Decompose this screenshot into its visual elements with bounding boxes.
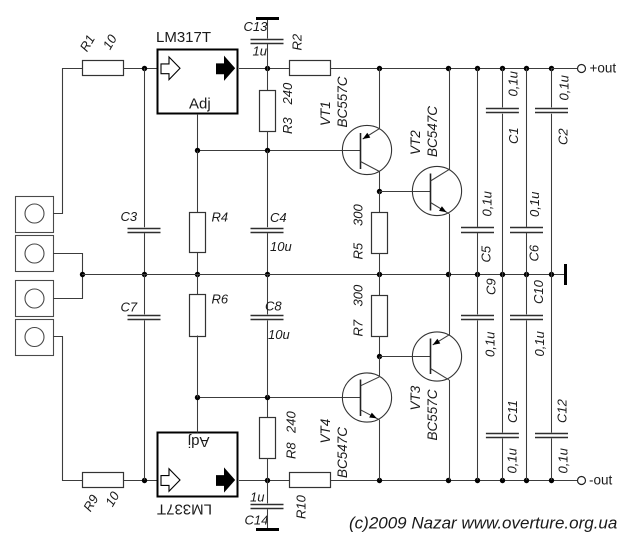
node bottom rail junction bbox=[265, 478, 270, 483]
svg-text:LM337T: LM337T bbox=[157, 501, 212, 518]
transistor VT2 body bbox=[412, 166, 461, 215]
wire mid rail to C12 bbox=[551, 274, 553, 433]
svg-text:C5: C5 bbox=[479, 245, 494, 262]
wire mid rail to C7 bbox=[144, 274, 146, 314]
wire U2 output to R10 bbox=[239, 480, 290, 482]
svg-text:BC547C: BC547C bbox=[425, 106, 440, 157]
capacitor C13 bbox=[251, 39, 284, 41]
wire R8 to bottom rail bbox=[267, 458, 269, 480]
node adj line at R3/C4 bbox=[265, 148, 270, 153]
svg-text:1u: 1u bbox=[253, 44, 267, 59]
wire bottom output rail bbox=[331, 480, 578, 482]
node bottom-left junction bbox=[142, 478, 147, 483]
ground bar below C14 bbox=[256, 528, 279, 531]
resistor R7 bbox=[372, 296, 388, 337]
VT3 base bar bbox=[430, 339, 432, 375]
VT4 base bar bbox=[360, 380, 362, 417]
wire bottom rail to C14 bbox=[267, 480, 269, 503]
connector X4 bbox=[16, 320, 54, 356]
wire adj line to R4 bbox=[197, 151, 199, 213]
node top rail junction bbox=[475, 66, 480, 71]
wire mid rail to C11 bbox=[502, 274, 504, 433]
node top rail junction bbox=[446, 66, 451, 71]
transistor VT1 body bbox=[342, 125, 391, 174]
svg-text:C12: C12 bbox=[555, 398, 570, 423]
node C3 mid rail bbox=[142, 272, 147, 277]
node VT4 collector junction bbox=[377, 354, 382, 359]
svg-text:R5: R5 bbox=[351, 242, 366, 259]
node bottom rail junction bbox=[377, 478, 382, 483]
wire top rail to C1 bbox=[502, 68, 504, 107]
wire top rail to C5 bbox=[477, 68, 479, 227]
node mid rail junction bbox=[475, 272, 480, 277]
node top rail junction bbox=[265, 66, 270, 71]
svg-text:VT1: VT1 bbox=[318, 101, 333, 126]
terminal -out bbox=[578, 477, 586, 485]
svg-text:C9: C9 bbox=[484, 278, 499, 295]
svg-text:C14: C14 bbox=[245, 513, 269, 528]
wire U1 Adj pin down bbox=[197, 114, 199, 151]
svg-text:10: 10 bbox=[100, 31, 121, 52]
svg-text:R8: R8 bbox=[284, 442, 299, 459]
wire mid rail to VT3 emitter bbox=[449, 274, 451, 335]
node top rail junction bbox=[500, 66, 505, 71]
connector X1 bbox=[16, 197, 54, 233]
capacitor C1 bbox=[486, 108, 519, 110]
connector X3 bbox=[16, 281, 54, 317]
wire from X3 to mid node bbox=[53, 275, 83, 299]
svg-text:C4: C4 bbox=[270, 210, 287, 225]
U2 input arrow (open) bbox=[161, 469, 180, 492]
wire R9 to LM337 input bbox=[124, 480, 158, 482]
wire mid rail to C9 bbox=[477, 274, 479, 314]
svg-text:0,1u: 0,1u bbox=[483, 332, 498, 357]
svg-text:240: 240 bbox=[280, 82, 295, 105]
resistor R9 bbox=[83, 473, 124, 488]
svg-text:0,1u: 0,1u bbox=[556, 448, 571, 473]
resistor R3 bbox=[260, 91, 276, 132]
VT2 base bar bbox=[430, 174, 432, 211]
capacitor C8 bbox=[251, 315, 284, 317]
svg-text:C8: C8 bbox=[265, 299, 282, 314]
capacitor C9 bbox=[461, 315, 494, 317]
node adj2 line at R8/C8 bbox=[265, 395, 270, 400]
svg-text:R6: R6 bbox=[212, 292, 229, 307]
svg-text:VT3: VT3 bbox=[408, 385, 423, 410]
capacitor C11 bbox=[486, 433, 519, 435]
svg-text:10u: 10u bbox=[268, 327, 290, 342]
capacitor C5 bbox=[461, 227, 494, 229]
wire C1 to mid rail bbox=[502, 114, 504, 274]
node bottom rail junction bbox=[524, 478, 529, 483]
wire from X2 to mid node bbox=[53, 254, 83, 275]
svg-text:C13: C13 bbox=[244, 19, 269, 34]
wire top rail to C6 bbox=[526, 68, 528, 227]
transistor VT3 body bbox=[412, 332, 461, 381]
svg-text:C3: C3 bbox=[121, 209, 138, 224]
svg-text:R9: R9 bbox=[80, 492, 101, 514]
node mid rail junction bbox=[500, 272, 505, 277]
svg-text:R10: R10 bbox=[294, 494, 309, 519]
wire from X1 to +input rail bbox=[53, 69, 83, 214]
U1 input arrow (open) bbox=[161, 57, 180, 80]
wire mid rail to R7 bbox=[379, 274, 381, 295]
capacitor C7 bbox=[128, 315, 161, 317]
svg-text:C1: C1 bbox=[506, 127, 521, 144]
wire VT2 collector to top rail bbox=[449, 68, 451, 170]
wire VT1 collector down bbox=[379, 172, 381, 192]
svg-text:300: 300 bbox=[351, 204, 366, 226]
node bottom rail junction bbox=[500, 478, 505, 483]
resistor R4 bbox=[190, 213, 206, 253]
svg-text:BC547C: BC547C bbox=[335, 427, 350, 478]
node mid rail junction bbox=[524, 272, 529, 277]
wire R3 to adj line bbox=[267, 131, 269, 151]
wire bar to C13 bbox=[267, 20, 269, 39]
node mid input junction bbox=[80, 272, 85, 277]
VT1 emitter bbox=[363, 129, 380, 139]
wire mid rail to C10 bbox=[526, 274, 528, 314]
wire adj line to VT1 base bbox=[198, 150, 361, 152]
resistor R2 bbox=[290, 61, 331, 76]
node adj2 line left bbox=[195, 395, 200, 400]
U2 output arrow (solid) bbox=[217, 469, 235, 492]
svg-text:1u: 1u bbox=[250, 490, 264, 505]
wire top output rail bbox=[331, 68, 578, 70]
node top rail junction bbox=[524, 66, 529, 71]
svg-text:10: 10 bbox=[102, 488, 123, 509]
wire +rail down to C3 bbox=[144, 68, 146, 227]
node mid rail junction bbox=[377, 272, 382, 277]
VT4 emitter bbox=[361, 410, 380, 420]
VT2 collector bbox=[431, 170, 450, 181]
svg-text:BC557C: BC557C bbox=[425, 389, 440, 440]
wire C7 to bottom rail bbox=[144, 320, 146, 480]
wire R4 to mid rail bbox=[197, 253, 199, 274]
transistor VT4 body bbox=[342, 373, 391, 422]
op-amp U1 LM317T body bbox=[158, 50, 238, 114]
node mid rail junction bbox=[549, 272, 554, 277]
connector X2 bbox=[16, 236, 54, 272]
capacitor C10 bbox=[510, 315, 543, 317]
svg-text:(c)2009 Nazar www.overture.org: (c)2009 Nazar www.overture.org.ua bbox=[349, 514, 617, 533]
ground bar mid rail right bbox=[564, 264, 567, 285]
capacitor C3 bbox=[128, 228, 161, 230]
U1 output arrow (solid) bbox=[217, 57, 235, 80]
node adj line left bbox=[195, 148, 200, 153]
wire VT2 emitter to mid rail bbox=[449, 214, 451, 274]
svg-text:VT2: VT2 bbox=[408, 130, 423, 155]
wire node to R5 bbox=[379, 192, 381, 213]
VT4 collector bbox=[361, 377, 380, 386]
node top rail junction bbox=[377, 66, 382, 71]
resistor R10 bbox=[290, 473, 331, 488]
node mid rail junction bbox=[446, 272, 451, 277]
wire VT3 collector to bottom rail bbox=[449, 380, 451, 480]
wire mid rail bbox=[82, 274, 564, 276]
svg-text:C11: C11 bbox=[505, 400, 520, 423]
wire adj line to C4 bbox=[267, 151, 269, 228]
wire adj2 line to R8 bbox=[267, 398, 269, 418]
node top-left junction bbox=[142, 66, 147, 71]
wire VT4 collector up bbox=[379, 357, 381, 377]
wire U1 output to R2 bbox=[239, 68, 290, 70]
VT2 emitter bbox=[431, 203, 450, 214]
wire U2 Adj pin up bbox=[197, 398, 199, 433]
wire node to VT3 base bbox=[380, 356, 431, 358]
svg-text:R2: R2 bbox=[290, 33, 305, 50]
wire R7 to VT3 base node bbox=[379, 336, 381, 357]
capacitor C12 bbox=[535, 433, 568, 435]
wire from X4 to -input rail bbox=[53, 337, 83, 481]
node bottom rail junction bbox=[549, 478, 554, 483]
node bottom rail junction bbox=[475, 478, 480, 483]
node VT1 collector junction bbox=[377, 189, 382, 194]
wire top rail to VT1 emitter bbox=[379, 68, 381, 129]
svg-text:R1: R1 bbox=[77, 32, 98, 54]
wire VT1 node to VT2 base bbox=[380, 191, 431, 193]
svg-text:0,1u: 0,1u bbox=[480, 191, 495, 216]
node top rail junction bbox=[549, 66, 554, 71]
svg-text:240: 240 bbox=[284, 411, 299, 434]
wire C6 to mid rail bbox=[526, 233, 528, 274]
capacitor C14 bbox=[251, 504, 284, 506]
capacitor C2 bbox=[535, 108, 568, 110]
svg-text:10u: 10u bbox=[270, 239, 292, 254]
svg-text:0,1u: 0,1u bbox=[532, 331, 547, 356]
svg-text:R7: R7 bbox=[351, 319, 366, 336]
resistor R6 bbox=[190, 295, 206, 337]
node bottom rail junction bbox=[446, 478, 451, 483]
wire mid rail to C8 bbox=[267, 274, 269, 314]
wire C8 to adj2 line bbox=[267, 320, 269, 397]
VT3 collector bbox=[431, 369, 450, 380]
svg-text:0,1u: 0,1u bbox=[557, 75, 572, 100]
wire adj2 line to VT4 base bbox=[198, 397, 361, 399]
svg-text:300: 300 bbox=[351, 284, 366, 306]
resistor R1 bbox=[83, 61, 124, 76]
svg-text:C6: C6 bbox=[527, 244, 542, 261]
wire VT4 emitter to bottom rail bbox=[379, 420, 381, 480]
wire C12 to bottom rail bbox=[551, 438, 553, 480]
capacitor C4 bbox=[251, 228, 284, 230]
wire C9 to bottom rail bbox=[477, 320, 479, 480]
wire C5 to mid rail bbox=[477, 233, 479, 274]
svg-text:R3: R3 bbox=[280, 117, 295, 134]
svg-text:0,1u: 0,1u bbox=[505, 448, 520, 473]
terminal +out bbox=[578, 65, 586, 73]
svg-text:LM317T: LM317T bbox=[156, 29, 211, 46]
VT1 base bar bbox=[360, 133, 362, 169]
wire top rail to R3 bbox=[267, 68, 269, 90]
wire top rail to C2 bbox=[551, 68, 553, 107]
svg-text:0,1u: 0,1u bbox=[506, 71, 521, 96]
wire C2 to mid rail bbox=[551, 114, 553, 274]
svg-text:VT4: VT4 bbox=[318, 419, 333, 444]
svg-text:+out: +out bbox=[590, 61, 617, 76]
wire R1 to LM317 input bbox=[124, 68, 158, 70]
wire R5 to mid rail bbox=[379, 253, 381, 274]
resistor R5 bbox=[372, 213, 388, 254]
wire mid rail to R6 bbox=[197, 274, 199, 294]
resistor R8 bbox=[260, 418, 276, 459]
wire C13 to top rail bbox=[267, 44, 269, 68]
svg-text:C2: C2 bbox=[556, 128, 571, 145]
capacitor C6 bbox=[510, 227, 543, 229]
svg-text:C7: C7 bbox=[121, 300, 138, 315]
ground bar above C13 bbox=[256, 17, 279, 20]
svg-text:Adj: Adj bbox=[189, 96, 211, 113]
wire C14 to bar bbox=[267, 509, 269, 528]
wire C4 to mid rail bbox=[267, 233, 269, 274]
node C4 mid rail bbox=[265, 272, 270, 277]
wire C3 to mid rail bbox=[144, 233, 146, 274]
svg-text:C10: C10 bbox=[531, 279, 546, 304]
svg-text:-out: -out bbox=[589, 473, 613, 488]
wire C10 to bottom rail bbox=[526, 320, 528, 480]
VT3 emitter bbox=[433, 335, 449, 345]
VT1 collector bbox=[361, 162, 380, 172]
svg-text:BC557C: BC557C bbox=[335, 76, 350, 127]
node R4 mid rail bbox=[195, 272, 200, 277]
svg-text:R4: R4 bbox=[212, 210, 229, 225]
op-amp U2 LM337T body bbox=[158, 433, 238, 497]
svg-text:Adj: Adj bbox=[188, 433, 210, 450]
wire R6 to adj2 line bbox=[197, 336, 199, 398]
wire top rail to +out bbox=[552, 68, 578, 70]
wire C11 to bottom rail bbox=[502, 438, 504, 480]
svg-text:0,1u: 0,1u bbox=[527, 192, 542, 217]
